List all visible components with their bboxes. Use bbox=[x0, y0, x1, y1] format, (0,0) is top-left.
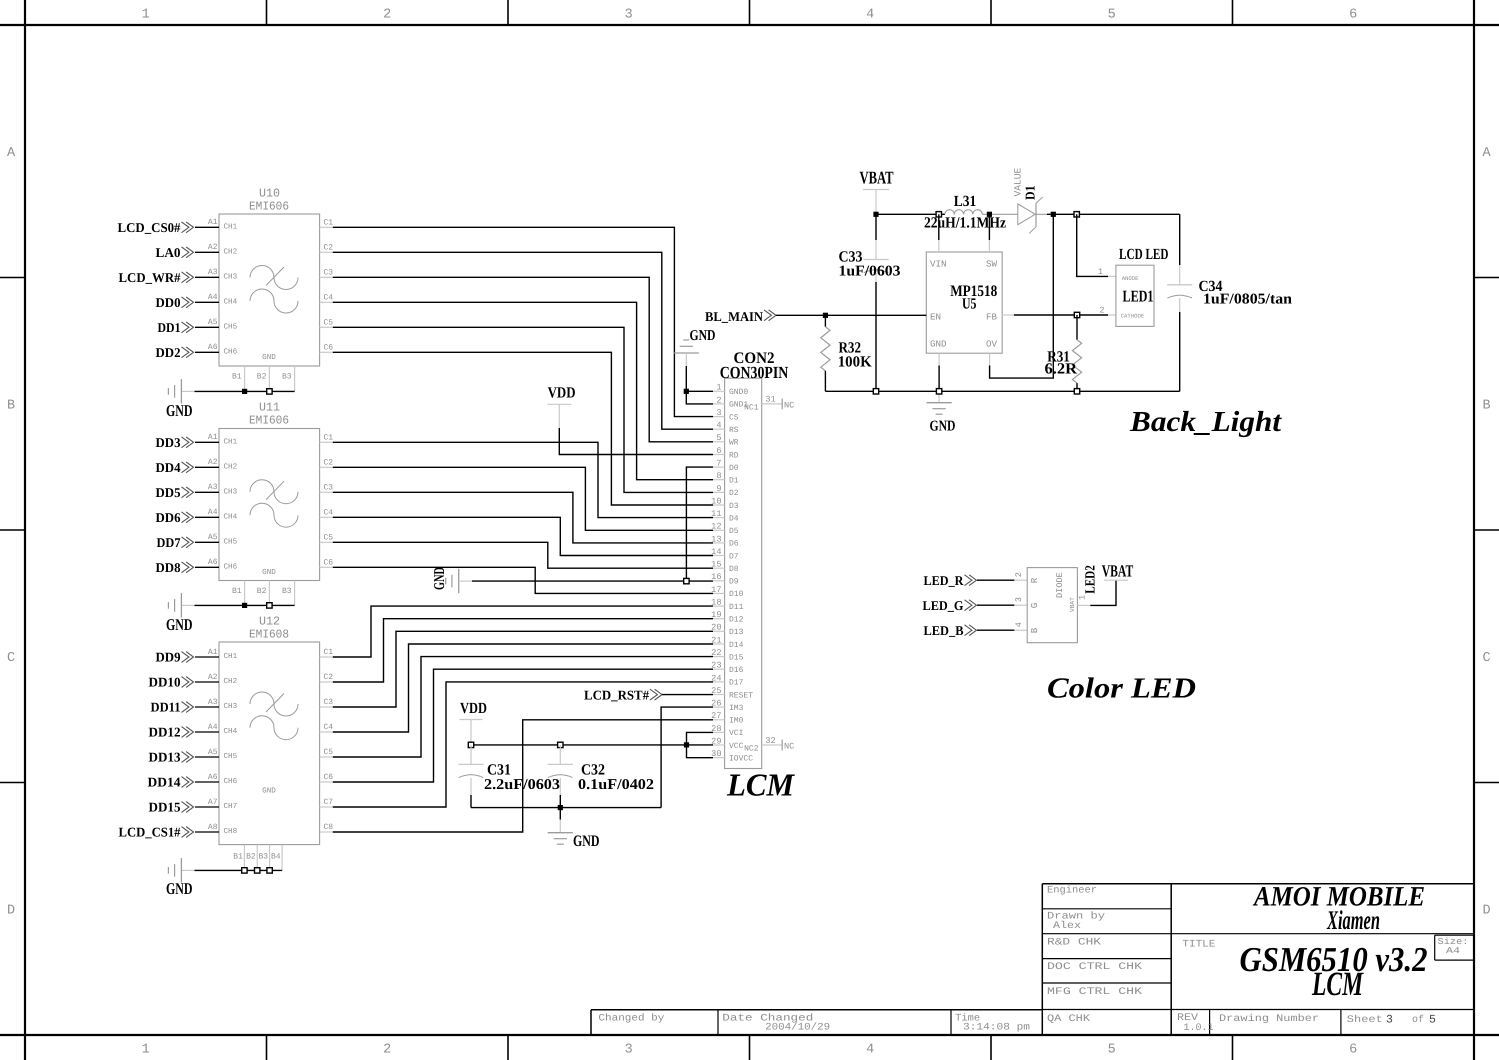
svg-text:EMI606: EMI606 bbox=[249, 414, 289, 428]
svg-text:IM3: IM3 bbox=[729, 704, 744, 713]
svg-text:LCM: LCM bbox=[1311, 966, 1364, 1003]
svg-text:CH2: CH2 bbox=[224, 677, 238, 686]
svg-text:A4: A4 bbox=[208, 293, 218, 302]
svg-text:D: D bbox=[7, 904, 15, 919]
svg-text:C5: C5 bbox=[324, 533, 334, 542]
svg-text:A7: A7 bbox=[208, 798, 218, 807]
svg-text:GND: GND bbox=[166, 879, 193, 898]
junction C32 ground bbox=[558, 805, 563, 810]
svg-text:LA0: LA0 bbox=[156, 245, 181, 260]
svg-text:4: 4 bbox=[866, 8, 874, 23]
svg-text:DD13: DD13 bbox=[149, 750, 181, 765]
svg-text:D1: D1 bbox=[1023, 185, 1038, 200]
net label BL_MAIN bbox=[705, 309, 776, 324]
svg-text:GND: GND bbox=[262, 353, 276, 362]
junction U12 B2 bbox=[255, 868, 260, 873]
svg-text:A5: A5 bbox=[208, 748, 218, 757]
svg-text:22uH/1.1MHz: 22uH/1.1MHz bbox=[924, 215, 1006, 232]
svg-text:C4: C4 bbox=[324, 723, 334, 732]
net labels DD9-DD15 LCD_CS1# bbox=[119, 650, 194, 840]
svg-text:C5: C5 bbox=[324, 318, 334, 327]
svg-text:EN: EN bbox=[930, 312, 941, 323]
wire U10 C3 to connector pin 5 (WR) bbox=[333, 277, 713, 442]
junction U10 B2 bbox=[267, 389, 272, 394]
svg-text:A3: A3 bbox=[208, 483, 218, 492]
U10 ground pins B1 B2 B3 bbox=[232, 366, 295, 391]
svg-text:NC2: NC2 bbox=[744, 744, 759, 753]
svg-text:D3: D3 bbox=[729, 502, 739, 511]
LED1 pin 2 label bbox=[1099, 306, 1104, 316]
svg-text:VCI: VCI bbox=[729, 729, 743, 738]
wire U10 C6 to connector pin 10 (D3) bbox=[333, 352, 713, 505]
wire U11 C2 to connector pin 12 (D5) bbox=[333, 467, 713, 530]
svg-text:NC1: NC1 bbox=[744, 403, 759, 412]
label C34 value bbox=[1199, 278, 1293, 307]
svg-text:CH2: CH2 bbox=[224, 463, 238, 472]
svg-text:U5: U5 bbox=[962, 296, 977, 313]
svg-text:Xiamen: Xiamen bbox=[1326, 905, 1380, 935]
junction GND pin1 bbox=[684, 389, 689, 394]
svg-text:CH3: CH3 bbox=[224, 273, 238, 282]
wire U10 C2 to connector pin 4 (RS) bbox=[333, 252, 713, 429]
wire diode to output node bbox=[1036, 213, 1180, 215]
svg-text:LED_R: LED_R bbox=[924, 573, 964, 588]
svg-text:DD9: DD9 bbox=[156, 650, 181, 665]
svg-text:A6: A6 bbox=[208, 558, 218, 567]
svg-text:LED_B: LED_B bbox=[924, 623, 964, 638]
svg-text:C: C bbox=[1482, 651, 1490, 666]
svg-text:VDD: VDD bbox=[548, 385, 576, 402]
wire VBAT rail to inductor bbox=[876, 213, 945, 215]
svg-text:3: 3 bbox=[716, 408, 721, 418]
svg-text:RS: RS bbox=[729, 426, 739, 435]
svg-text:LCD_CS0#: LCD_CS0# bbox=[118, 220, 181, 235]
wire VCI VCC IOVCC bracket bbox=[687, 732, 714, 757]
svg-text:1uF/0805/tan: 1uF/0805/tan bbox=[1203, 291, 1293, 307]
wire U5 GND stub bbox=[938, 353, 940, 391]
svg-text:DD11: DD11 bbox=[151, 700, 181, 715]
svg-text:GND: GND bbox=[930, 418, 956, 434]
svg-text:B: B bbox=[1029, 627, 1040, 633]
wire U12 C6 to connector pin 23 (D16) bbox=[333, 669, 713, 782]
svg-text:DD2: DD2 bbox=[156, 345, 181, 360]
junction U5 ground bbox=[936, 389, 941, 394]
svg-text:2: 2 bbox=[1014, 572, 1024, 577]
svg-text:4: 4 bbox=[1014, 622, 1024, 627]
wire U10 C5 to connector pin 9 (D2) bbox=[333, 327, 713, 492]
svg-text:LCD LED: LCD LED bbox=[1119, 246, 1169, 263]
svg-text:B1: B1 bbox=[232, 587, 242, 596]
wire lower ground rail bbox=[471, 807, 661, 809]
svg-text:D13: D13 bbox=[729, 628, 744, 637]
svg-text:CH4: CH4 bbox=[224, 513, 238, 522]
svg-text:B: B bbox=[1482, 399, 1490, 414]
wire U11 ground rail bbox=[181, 604, 294, 606]
wire SW stub bbox=[988, 214, 990, 252]
svg-text:D10: D10 bbox=[729, 590, 744, 599]
svg-text:A: A bbox=[7, 146, 16, 161]
label C31 value bbox=[484, 762, 560, 794]
svg-text:NC: NC bbox=[784, 741, 794, 751]
svg-text:OV: OV bbox=[986, 339, 998, 350]
svg-text:A3: A3 bbox=[208, 268, 218, 277]
svg-text:CH1: CH1 bbox=[224, 223, 238, 232]
svg-text:DD6: DD6 bbox=[156, 510, 181, 525]
LED1 pin 1 label bbox=[1098, 267, 1103, 277]
svg-text:MFG CTRL CHK: MFG CTRL CHK bbox=[1047, 987, 1142, 998]
svg-text:DD10: DD10 bbox=[149, 675, 181, 690]
wire inductor to diode bbox=[982, 213, 1018, 215]
EMI filter U11 EMI606 bbox=[219, 401, 320, 581]
junction R31 tap bbox=[1074, 312, 1079, 317]
svg-text:A3: A3 bbox=[208, 698, 218, 707]
net labels DD3-DD8 bbox=[156, 435, 194, 575]
svg-text:Drawing Number: Drawing Number bbox=[1219, 1013, 1319, 1025]
svg-text:VBAT: VBAT bbox=[860, 167, 894, 187]
svg-text:EMI606: EMI606 bbox=[249, 200, 289, 214]
svg-text:GND: GND bbox=[166, 615, 193, 634]
svg-text:D: D bbox=[1482, 904, 1490, 919]
svg-text:D14: D14 bbox=[729, 641, 744, 650]
capacitor C32 bbox=[548, 745, 573, 808]
wire LCD_RST# to pin 25 RESET bbox=[662, 694, 713, 696]
svg-text:A4: A4 bbox=[1446, 946, 1460, 956]
svg-text:CH6: CH6 bbox=[224, 777, 238, 786]
connector CON2 body bbox=[725, 378, 762, 768]
wire U12 C2 to connector pin 19 (D12) bbox=[333, 619, 713, 682]
svg-text:C6: C6 bbox=[324, 558, 334, 567]
svg-text:DD3: DD3 bbox=[156, 435, 181, 450]
regulator U5 MP1518 bbox=[926, 252, 1002, 353]
net labels LED_R LED_G LED_B bbox=[923, 573, 977, 638]
svg-text:FB: FB bbox=[986, 312, 998, 323]
wire FB to LED cathode bbox=[1002, 314, 1116, 316]
svg-text:A4: A4 bbox=[208, 723, 218, 732]
svg-text:Changed by: Changed by bbox=[598, 1013, 664, 1025]
title block labels bbox=[598, 885, 1468, 1035]
capacitor C31 bbox=[458, 745, 483, 808]
label R31 value bbox=[1045, 348, 1078, 377]
svg-text:CH1: CH1 bbox=[224, 438, 238, 447]
ground symbol below C32 bbox=[548, 808, 600, 850]
junction output node bbox=[1051, 212, 1056, 217]
label D1 VALUE bbox=[1013, 167, 1038, 200]
svg-text:1uF/0603: 1uF/0603 bbox=[839, 264, 901, 280]
label LCM section title bbox=[726, 767, 795, 803]
svg-text:CH3: CH3 bbox=[224, 488, 238, 497]
svg-text:3: 3 bbox=[1014, 597, 1024, 602]
svg-text:B3: B3 bbox=[282, 587, 292, 596]
svg-text:GND0: GND0 bbox=[729, 388, 748, 397]
wire VDD to pin 6 RD bbox=[559, 404, 713, 454]
svg-text:B2: B2 bbox=[257, 373, 267, 382]
svg-text:DD7: DD7 bbox=[157, 535, 181, 550]
wire U12 C5 to connector pin 22 (D15) bbox=[333, 657, 713, 757]
LED LED1 module bbox=[1116, 265, 1154, 326]
svg-text:1: 1 bbox=[142, 1043, 150, 1058]
svg-text:U12: U12 bbox=[259, 615, 280, 629]
svg-text:C7: C7 bbox=[324, 798, 334, 807]
title AMOI MOBILE Xiamen bbox=[1252, 882, 1425, 936]
svg-text:C4: C4 bbox=[324, 293, 334, 302]
svg-text:C2: C2 bbox=[324, 673, 334, 682]
svg-text:A2: A2 bbox=[208, 673, 218, 682]
junction U11 B1 bbox=[242, 603, 247, 608]
svg-text:C3: C3 bbox=[324, 268, 334, 277]
svg-text:D0: D0 bbox=[729, 464, 739, 473]
capacitor C33 bbox=[863, 214, 888, 391]
wire U10 C4 to connector pin 8 (D1) bbox=[333, 302, 713, 479]
junction VBAT node bbox=[873, 212, 878, 217]
label Back_Light section title bbox=[1129, 406, 1282, 438]
svg-text:R&D CHK: R&D CHK bbox=[1047, 938, 1101, 949]
junction C32 tap bbox=[558, 742, 563, 747]
svg-text:G: G bbox=[1029, 603, 1040, 609]
svg-text:C1: C1 bbox=[324, 648, 334, 657]
svg-text:3:14:08 pm: 3:14:08 pm bbox=[963, 1023, 1030, 1034]
svg-text:CH4: CH4 bbox=[224, 298, 238, 307]
svg-text:D15: D15 bbox=[729, 653, 744, 662]
svg-text:CS: CS bbox=[729, 413, 739, 422]
capacitor C34 bbox=[1167, 214, 1192, 391]
svg-text:IOVCC: IOVCC bbox=[729, 755, 753, 764]
svg-text:B: B bbox=[7, 399, 15, 414]
svg-text:D11: D11 bbox=[729, 603, 744, 612]
svg-text:VBAT: VBAT bbox=[1102, 562, 1134, 581]
svg-text:DOC CTRL CHK: DOC CTRL CHK bbox=[1047, 962, 1142, 973]
wire anode from output node bbox=[1077, 214, 1116, 276]
power symbol VBAT backlight bbox=[860, 167, 894, 214]
svg-text:DD0: DD0 bbox=[156, 295, 181, 310]
wire U10 C1 to connector pin 3 (CS) bbox=[333, 227, 713, 416]
LED2 pin numbers 2 3 4 bbox=[1014, 572, 1024, 627]
junction U11 B2 bbox=[267, 603, 272, 608]
wire U11 C4 to connector pin 14 (D7) bbox=[333, 517, 713, 555]
wire U12 ground rail bbox=[181, 869, 282, 871]
ground symbol above connector bbox=[674, 328, 716, 353]
connector CON2 reference label bbox=[720, 350, 789, 382]
svg-text:D16: D16 bbox=[729, 666, 744, 675]
svg-text:GND: GND bbox=[690, 328, 716, 344]
svg-text:CON30PIN: CON30PIN bbox=[720, 363, 789, 382]
svg-text:C2: C2 bbox=[324, 243, 334, 252]
label Color LED section title bbox=[1047, 673, 1196, 705]
svg-text:3: 3 bbox=[625, 8, 633, 23]
svg-text:A6: A6 bbox=[208, 773, 218, 782]
wire VDD stem to VCC rail bbox=[470, 720, 472, 745]
svg-text:100K: 100K bbox=[838, 353, 872, 370]
wire U12 C3 to connector pin 20 (D13) bbox=[333, 631, 713, 707]
wire LED2 pin1 to VBAT bbox=[1077, 580, 1116, 605]
svg-text:CATHODE: CATHODE bbox=[1121, 313, 1145, 320]
svg-text:4: 4 bbox=[716, 421, 721, 431]
svg-text:CH5: CH5 bbox=[224, 323, 238, 332]
svg-text:A1: A1 bbox=[208, 218, 218, 227]
U11 ground pins B1 B2 B3 bbox=[232, 581, 295, 606]
net label LCD_RST# bbox=[584, 688, 662, 703]
power symbol VDD lower bbox=[460, 700, 488, 720]
svg-text:C3: C3 bbox=[324, 698, 334, 707]
label L31 value bbox=[924, 193, 1006, 232]
svg-text:Color LED: Color LED bbox=[1047, 673, 1196, 705]
svg-text:7: 7 bbox=[716, 459, 721, 469]
svg-text:IM0: IM0 bbox=[729, 717, 744, 726]
svg-text:D7: D7 bbox=[729, 552, 739, 561]
svg-text:1: 1 bbox=[1098, 267, 1103, 277]
svg-text:C32: C32 bbox=[581, 762, 605, 779]
svg-text:VDD: VDD bbox=[460, 700, 487, 717]
svg-text:1.0.1: 1.0.1 bbox=[1184, 1023, 1214, 1034]
svg-text:A1: A1 bbox=[208, 433, 218, 442]
svg-text:C6: C6 bbox=[324, 343, 334, 352]
junction U12 B1 bbox=[242, 868, 247, 873]
svg-text:B2: B2 bbox=[246, 852, 256, 861]
svg-text:CH5: CH5 bbox=[224, 538, 238, 547]
svg-text:RD: RD bbox=[729, 451, 739, 460]
svg-text:5: 5 bbox=[716, 433, 721, 443]
U11 pin stubs and pin names bbox=[195, 433, 333, 567]
svg-text:D9: D9 bbox=[729, 578, 739, 587]
ground symbol below U11 bbox=[166, 593, 193, 634]
svg-text:CH7: CH7 bbox=[224, 802, 238, 811]
junction VIN node bbox=[936, 212, 941, 217]
junction D9 tie bbox=[684, 578, 689, 583]
resistor R31 bbox=[1072, 315, 1081, 391]
svg-text:VIN: VIN bbox=[930, 259, 947, 270]
svg-text:DD5: DD5 bbox=[156, 485, 181, 500]
svg-text:GND: GND bbox=[262, 786, 276, 795]
svg-text:Sheet: Sheet bbox=[1347, 1014, 1383, 1026]
svg-text:1: 1 bbox=[716, 383, 721, 393]
wire U12 C1 to connector pin 18 (D11) bbox=[333, 606, 713, 657]
svg-text:6.2R: 6.2R bbox=[1045, 360, 1078, 377]
svg-text:0.1uF/0402: 0.1uF/0402 bbox=[578, 777, 654, 793]
svg-text:D6: D6 bbox=[729, 540, 739, 549]
svg-text:WR: WR bbox=[729, 439, 739, 448]
svg-text:A5: A5 bbox=[208, 533, 218, 542]
connector NC1 pin 31 no-connect bbox=[744, 395, 794, 413]
svg-text:C2: C2 bbox=[324, 458, 334, 467]
ground symbol for D0 D9 tie bbox=[432, 567, 459, 593]
svg-text:5: 5 bbox=[1108, 8, 1116, 23]
wire U11 C6 to connector pin 17 (D10) bbox=[333, 567, 713, 593]
svg-text:D5: D5 bbox=[729, 527, 739, 536]
ground symbol below U12 bbox=[166, 858, 193, 898]
svg-text:5: 5 bbox=[1429, 1014, 1436, 1027]
svg-text:6: 6 bbox=[1349, 1043, 1357, 1058]
svg-text:CH8: CH8 bbox=[224, 827, 238, 836]
svg-text:D1: D1 bbox=[729, 477, 739, 486]
svg-text:RESET: RESET bbox=[729, 691, 753, 700]
svg-text:2: 2 bbox=[1099, 306, 1104, 316]
svg-text:EMI608: EMI608 bbox=[249, 628, 289, 642]
svg-text:DD14: DD14 bbox=[148, 775, 181, 790]
svg-text:31: 31 bbox=[765, 395, 775, 405]
svg-text:LED1: LED1 bbox=[1123, 287, 1154, 306]
svg-text:C1: C1 bbox=[324, 218, 334, 227]
svg-text:DD15: DD15 bbox=[149, 800, 181, 815]
svg-text:2: 2 bbox=[383, 8, 391, 23]
junction C33 ground bbox=[873, 389, 878, 394]
junction R31 ground bbox=[1074, 389, 1079, 394]
svg-text:TITLE: TITLE bbox=[1182, 940, 1215, 951]
svg-text:C6: C6 bbox=[324, 773, 334, 782]
power symbol VBAT color led bbox=[1102, 562, 1134, 581]
svg-text:A4: A4 bbox=[208, 508, 218, 517]
svg-text:of: of bbox=[1412, 1014, 1424, 1026]
wire BL_MAIN to EN bbox=[776, 314, 926, 316]
U12 pin stubs and pin names bbox=[195, 648, 333, 832]
svg-text:GND: GND bbox=[262, 568, 276, 577]
svg-text:C31: C31 bbox=[487, 762, 511, 779]
svg-text:D2: D2 bbox=[729, 489, 739, 498]
svg-text:6: 6 bbox=[1349, 8, 1357, 23]
svg-text:A8: A8 bbox=[208, 823, 218, 832]
svg-text:32: 32 bbox=[765, 736, 775, 746]
wire U11 C3 to connector pin 13 (D6) bbox=[333, 492, 713, 543]
wire VCC rail to pin 29 bbox=[471, 744, 713, 746]
label LCDLED bbox=[1119, 246, 1169, 263]
U10 pin stubs and pin names bbox=[195, 218, 333, 352]
svg-text:Back_Light: Back_Light bbox=[1129, 406, 1282, 438]
svg-text:C: C bbox=[7, 651, 15, 666]
inductor L31 bbox=[945, 210, 982, 215]
junction R32 tap bbox=[823, 313, 828, 318]
title GSM6510 v3.2 LCM bbox=[1240, 940, 1428, 1003]
svg-text:VCC: VCC bbox=[729, 742, 744, 751]
label R32 value bbox=[838, 340, 872, 371]
svg-text:DD12: DD12 bbox=[149, 725, 181, 740]
svg-text:LED2: LED2 bbox=[1084, 565, 1099, 594]
svg-text:A2: A2 bbox=[208, 458, 218, 467]
wire U10 ground rail bbox=[181, 390, 294, 392]
U12 ground pins B1 B2 B3 B4 bbox=[233, 845, 282, 871]
svg-text:C3: C3 bbox=[324, 483, 334, 492]
svg-text:8: 8 bbox=[716, 471, 721, 481]
wire backlight ground rail bbox=[825, 390, 1179, 392]
svg-text:CH6: CH6 bbox=[224, 563, 238, 572]
svg-text:CH1: CH1 bbox=[224, 652, 238, 661]
svg-text:DD1: DD1 bbox=[158, 320, 181, 335]
svg-text:ANODE: ANODE bbox=[1122, 275, 1139, 282]
wire U12 C8 to connector pin 27 (IM0) bbox=[333, 720, 713, 832]
junction U12 B3 bbox=[267, 868, 272, 873]
svg-text:B1: B1 bbox=[233, 852, 243, 861]
svg-text:LCM: LCM bbox=[726, 767, 795, 803]
svg-text:D12: D12 bbox=[729, 616, 744, 625]
junction SW node bbox=[987, 212, 992, 217]
ground symbol below U10 bbox=[166, 379, 193, 420]
wire pin 26 IM3 to ground rail bbox=[661, 707, 713, 808]
svg-text:L31: L31 bbox=[954, 193, 977, 210]
svg-text:A6: A6 bbox=[208, 343, 218, 352]
svg-text:Engineer: Engineer bbox=[1047, 885, 1097, 897]
LED LED2 color module bbox=[1027, 568, 1077, 643]
title block grid bbox=[591, 884, 1474, 1035]
svg-text:1: 1 bbox=[142, 8, 150, 23]
resistor R32 bbox=[821, 315, 830, 391]
svg-text:GND: GND bbox=[573, 833, 600, 850]
svg-text:SW: SW bbox=[986, 259, 998, 270]
svg-text:A1: A1 bbox=[208, 648, 218, 657]
svg-text:QA CHK: QA CHK bbox=[1047, 1014, 1090, 1025]
svg-text:DD4: DD4 bbox=[156, 460, 181, 475]
svg-text:A5: A5 bbox=[208, 318, 218, 327]
svg-text:6: 6 bbox=[716, 446, 721, 456]
svg-text:BL_MAIN: BL_MAIN bbox=[705, 309, 763, 324]
wire U11 C5 to connector pin 15 (D8) bbox=[333, 542, 713, 568]
svg-text:C8: C8 bbox=[324, 823, 334, 832]
